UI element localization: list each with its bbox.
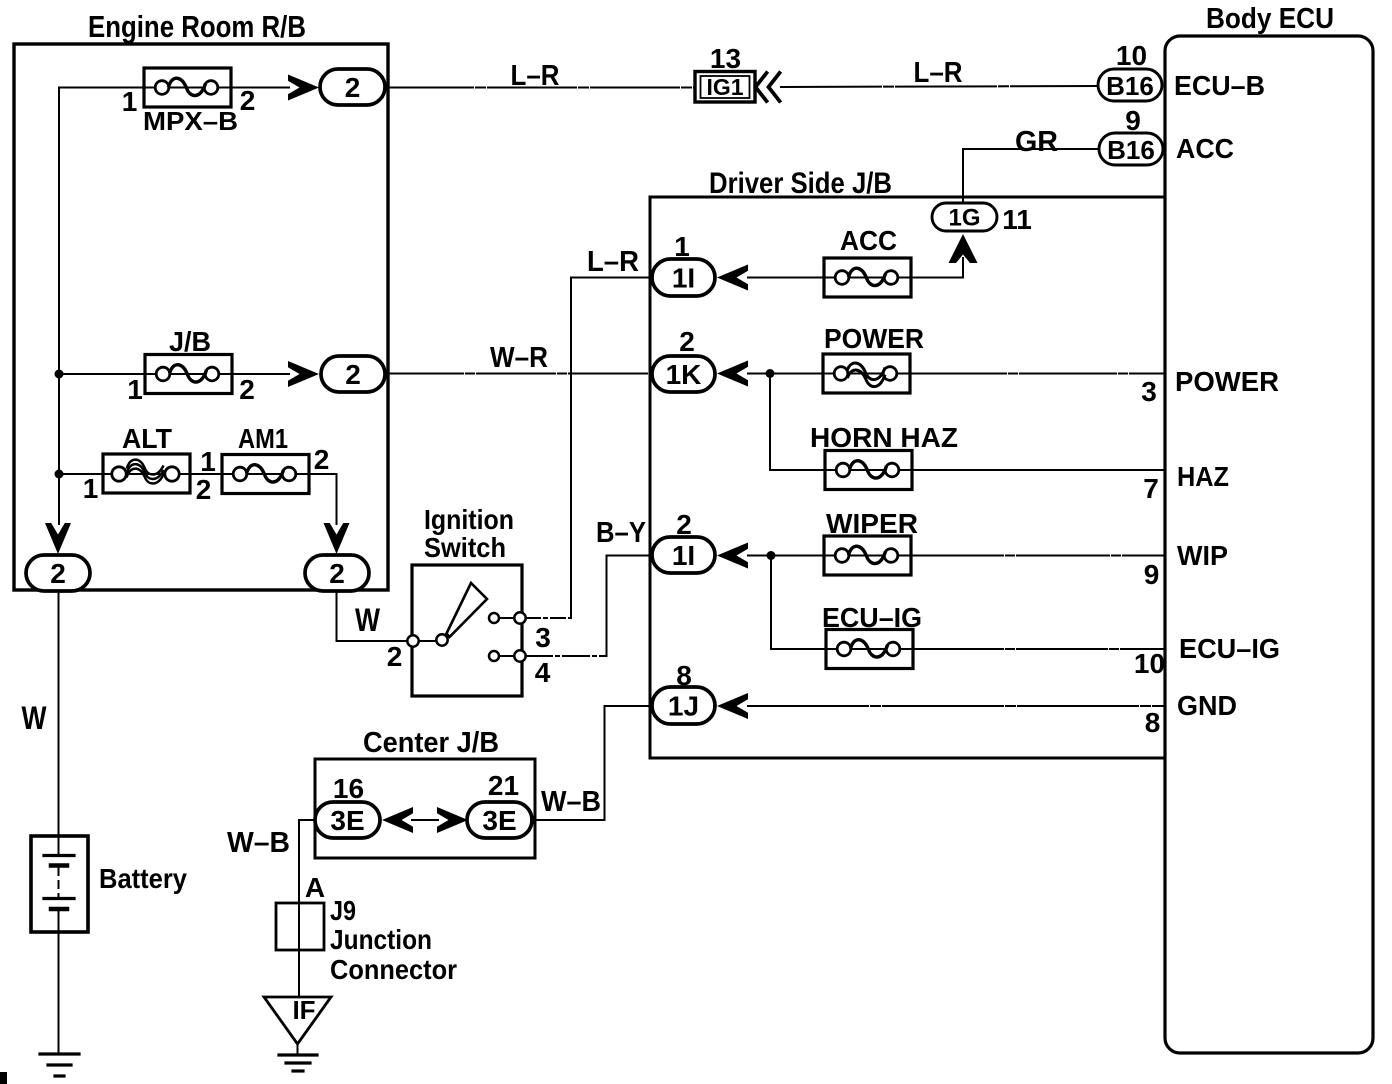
- svg-text:A: A: [305, 872, 325, 903]
- svg-text:B16: B16: [1107, 135, 1155, 165]
- 3E left pin 16: [333, 773, 364, 804]
- wire label W (ignition): [355, 602, 381, 638]
- Center J/B title: [363, 727, 499, 759]
- fuse ECU-IG: [822, 602, 922, 669]
- junction dot at J/B row: [55, 370, 64, 379]
- svg-text:1: 1: [122, 86, 138, 117]
- wire W: battery feed vertical: [58, 591, 60, 836]
- svg-text:2: 2: [329, 558, 345, 589]
- svg-text:10: 10: [1134, 648, 1165, 679]
- GND pin 8: [1145, 707, 1161, 738]
- 3E right pin 21: [488, 770, 519, 801]
- svg-text:8: 8: [1145, 707, 1161, 738]
- wire: battery to ground: [58, 932, 60, 1054]
- arrow up into 1G: [949, 234, 978, 263]
- svg-text:GR: GR: [1015, 126, 1058, 158]
- ignition switch title: [424, 504, 514, 563]
- fuse HORN HAZ: [810, 422, 958, 490]
- wire W: to ignition switch: [337, 591, 409, 641]
- svg-text:WIP: WIP: [1177, 540, 1228, 571]
- arrow left into 1K: [717, 361, 748, 387]
- arrow down into left bottom connector: [45, 523, 71, 554]
- wire: J/B row horizontal: [59, 373, 289, 375]
- connector oval 2 (bottom left): [26, 555, 90, 591]
- WIP pin 9: [1144, 559, 1160, 590]
- wire label B-Y: [596, 517, 646, 549]
- svg-text:1I: 1I: [672, 263, 695, 294]
- 1I pin 1: [674, 231, 690, 262]
- connector B16 (ACC): [1099, 133, 1163, 165]
- wire: ACC fuse to 1G: [911, 258, 963, 278]
- svg-text:1I: 1I: [672, 540, 695, 571]
- pin name POWER: [1175, 366, 1279, 397]
- svg-text:ACC: ACC: [840, 225, 897, 256]
- connector oval 2 (MPX-B row): [320, 69, 385, 105]
- wire: AM1 to right connector: [309, 474, 337, 524]
- svg-text:J9: J9: [330, 895, 356, 926]
- wire: ALT row horizontal: [59, 473, 223, 475]
- connector oval 3E (left): [315, 802, 380, 838]
- wire: HORN HAZ fuse to Body ECU: [912, 469, 1165, 471]
- AM1 pin 2: [314, 444, 330, 475]
- fuse WIPER: [824, 508, 918, 575]
- svg-text:2: 2: [314, 444, 330, 475]
- pin name ECU-IG: [1179, 633, 1280, 664]
- J9 labels: [330, 895, 457, 985]
- svg-text:Body ECU: Body ECU: [1206, 3, 1334, 35]
- 1K pin 2: [679, 326, 695, 357]
- svg-text:Battery: Battery: [99, 863, 187, 894]
- svg-text:POWER: POWER: [824, 323, 924, 354]
- 1G pin 11: [1002, 204, 1032, 235]
- svg-text:GND: GND: [1177, 690, 1237, 721]
- arrow down into right bottom connector: [324, 523, 350, 554]
- ignition switch terminal 2: [387, 635, 419, 672]
- svg-text:IG1: IG1: [706, 74, 743, 100]
- ECU-IG pin 10: [1134, 648, 1165, 679]
- wire label L-R (top right): [914, 57, 963, 89]
- Body ECU box: [1165, 36, 1373, 1053]
- svg-text:IF: IF: [292, 995, 315, 1025]
- svg-text:W–B: W–B: [227, 827, 290, 859]
- svg-text:2: 2: [345, 72, 361, 103]
- junction connector J9 box: [276, 903, 324, 950]
- svg-text:L–R: L–R: [587, 246, 639, 278]
- J/B pin 1: [127, 374, 143, 405]
- svg-text:W: W: [355, 602, 381, 638]
- wire W-R: engine room to 1K: [385, 373, 652, 375]
- pin name ACC: [1176, 133, 1234, 164]
- wire: POWER fuse to Body ECU: [910, 373, 1165, 375]
- svg-text:HORN HAZ: HORN HAZ: [810, 422, 958, 453]
- svg-text:1: 1: [127, 374, 143, 405]
- double chevron after IG1: [756, 73, 780, 101]
- ignition switch pivot and lever: [419, 583, 487, 646]
- wire: ECU-IG fuse to Body ECU: [913, 648, 1165, 650]
- fuse ACC: [824, 225, 911, 297]
- wire: 1J to Body ECU GND: [748, 705, 1165, 707]
- Body ECU title: [1206, 3, 1334, 35]
- wire W-B: left 3E to J9: [299, 820, 315, 903]
- connector IG1: [695, 72, 755, 103]
- fuse POWER: [823, 323, 924, 393]
- wire label GR: [1015, 126, 1058, 158]
- svg-text:8: 8: [676, 660, 692, 691]
- connector oval 2 (bottom right): [305, 555, 369, 591]
- svg-text:ALT: ALT: [122, 423, 172, 454]
- IG1 pin 13: [710, 43, 741, 74]
- svg-text:POWER: POWER: [1175, 366, 1279, 397]
- wire label W-R: [490, 342, 548, 374]
- connector oval 1I (WIPER row): [652, 537, 715, 573]
- svg-text:2: 2: [676, 509, 692, 540]
- Driver Side J/B block box: [650, 197, 1165, 758]
- ignition switch contact 4: [489, 650, 551, 688]
- HAZ pin 7: [1143, 473, 1159, 504]
- wire label W-B (left): [227, 827, 290, 859]
- svg-text:J/B: J/B: [169, 326, 211, 357]
- B16 pin 9: [1125, 105, 1141, 136]
- wire L-R: IG1 to ECU-B: [781, 86, 1098, 87]
- fuse AM1: [222, 423, 309, 494]
- svg-text:10: 10: [1116, 40, 1147, 71]
- svg-text:W–R: W–R: [490, 342, 548, 374]
- svg-text:ECU–IG: ECU–IG: [822, 602, 922, 633]
- wire: 1K to POWER fuse: [748, 373, 823, 375]
- fuse ALT (fusible link): [103, 423, 190, 493]
- ALT pin 1: [83, 473, 99, 504]
- svg-text:4: 4: [535, 657, 551, 688]
- svg-text:B16: B16: [1106, 71, 1154, 101]
- arrow left into 1I (ACC row): [717, 265, 748, 291]
- connector oval 2 (J/B row): [321, 356, 385, 392]
- junction dot at ALT row: [55, 470, 64, 479]
- wire label L-R (top left): [511, 60, 560, 92]
- wire: WIPER junction down to ECU-IG: [771, 556, 826, 650]
- ignition switch box: [412, 565, 522, 696]
- svg-text:1K: 1K: [666, 359, 702, 390]
- connector B16 (ECU-B): [1098, 69, 1162, 101]
- MPX-B pin 1: [122, 86, 138, 117]
- fuse J/B: [145, 326, 232, 394]
- svg-text:Engine Room R/B: Engine Room R/B: [88, 9, 306, 44]
- svg-text:3: 3: [535, 622, 551, 653]
- svg-text:1: 1: [83, 473, 99, 504]
- svg-text:Ignition: Ignition: [424, 504, 514, 535]
- svg-text:ACC: ACC: [1176, 133, 1234, 164]
- ignition switch contact 3: [489, 612, 551, 653]
- svg-text:7: 7: [1143, 473, 1159, 504]
- svg-text:1G: 1G: [948, 205, 980, 232]
- battery: [31, 836, 187, 932]
- arrow into connector 2 (MPX-B row): [288, 75, 319, 101]
- svg-text:11: 11: [1002, 204, 1032, 235]
- svg-text:Connector: Connector: [330, 954, 457, 985]
- arrow left (center J/B): [382, 807, 413, 833]
- svg-text:AM1: AM1: [238, 423, 288, 454]
- wire: ignition terminal 3 to 1I (L-R): [526, 278, 652, 619]
- page corner artifact: [0, 1072, 7, 1084]
- wire label W-B (right): [541, 786, 601, 818]
- svg-text:3: 3: [1141, 376, 1157, 407]
- pin name GND: [1177, 690, 1237, 721]
- POWER pin 3: [1141, 376, 1157, 407]
- wire: MPX-B row horizontal: [59, 87, 289, 89]
- svg-text:W: W: [22, 700, 48, 736]
- J/B pin 2: [239, 374, 255, 405]
- connector oval 1I (ACC row): [652, 259, 715, 296]
- fuse MPX-B: [143, 68, 238, 136]
- svg-text:2: 2: [387, 641, 403, 672]
- svg-text:WIPER: WIPER: [826, 508, 918, 539]
- wire: WIPER fuse to Body ECU: [911, 555, 1165, 557]
- svg-text:HAZ: HAZ: [1177, 461, 1229, 492]
- svg-text:16: 16: [333, 773, 364, 804]
- pin name WIP: [1177, 540, 1228, 571]
- ALT pin 2: [196, 474, 212, 505]
- svg-text:9: 9: [1125, 105, 1141, 136]
- arrow left into 1J: [717, 693, 748, 719]
- pin name HAZ: [1177, 461, 1229, 492]
- Center J/B block box: [315, 759, 535, 858]
- svg-text:Driver Side J/B: Driver Side J/B: [709, 167, 892, 200]
- wire: IF to ground: [297, 1044, 299, 1055]
- ground (IF): [279, 1055, 317, 1071]
- svg-text:W–B: W–B: [541, 786, 601, 818]
- wire between 3E arrows: [412, 819, 438, 821]
- ground (battery): [40, 1054, 79, 1076]
- svg-text:Switch: Switch: [424, 532, 506, 563]
- Driver Side J/B title: [709, 167, 892, 200]
- node A label: [305, 872, 325, 903]
- B16 pin 10: [1116, 40, 1147, 71]
- svg-text:3E: 3E: [482, 805, 516, 836]
- arrow into connector 2 (J/B row): [288, 361, 319, 387]
- Engine Room R/B title: [88, 9, 306, 44]
- svg-text:2: 2: [345, 359, 361, 390]
- Engine Room R/B block box: [14, 44, 388, 590]
- svg-text:2: 2: [50, 558, 66, 589]
- MPX-B pin 2: [240, 85, 256, 116]
- wire: POWER junction down to HORN HAZ: [770, 374, 825, 471]
- svg-text:Center J/B: Center J/B: [363, 727, 499, 759]
- svg-text:L–R: L–R: [914, 57, 963, 89]
- junction dot WIPER row: [767, 551, 776, 560]
- connector oval 1G: [932, 203, 997, 232]
- svg-text:1J: 1J: [668, 691, 699, 722]
- 1J pin 8: [676, 660, 692, 691]
- svg-text:MPX–B: MPX–B: [143, 106, 238, 136]
- wire: 1I to ACC fuse: [748, 277, 824, 279]
- svg-text:2: 2: [679, 326, 695, 357]
- svg-text:L–R: L–R: [511, 60, 560, 92]
- wire: engine room left bus vertical: [58, 88, 60, 525]
- wire W-B: right 3E to 1J: [532, 706, 652, 820]
- svg-text:2: 2: [239, 374, 255, 405]
- svg-text:3E: 3E: [330, 805, 364, 836]
- connector oval 1J (GND row): [652, 687, 715, 724]
- svg-text:Junction: Junction: [330, 924, 432, 955]
- connector oval 1K (POWER row): [652, 356, 715, 392]
- svg-text:ECU–B: ECU–B: [1174, 70, 1265, 101]
- wire label L-R (ignition): [587, 246, 639, 278]
- svg-text:B–Y: B–Y: [596, 517, 646, 549]
- junction dot POWER row: [766, 369, 775, 378]
- wire: ignition terminal 4 to 1I (B-Y): [526, 556, 652, 657]
- wire GR: ACC B16 to 1G: [963, 149, 1099, 203]
- svg-text:1: 1: [674, 231, 690, 262]
- wire: 1I to WIPER fuse: [748, 555, 824, 557]
- wire L-R: engine room to IG1: [385, 87, 695, 89]
- pin name ECU-B: [1174, 70, 1265, 101]
- arrow right (center J/B): [437, 807, 468, 833]
- arrow left into 1I (WIPER row): [717, 543, 748, 569]
- svg-text:ECU–IG: ECU–IG: [1179, 633, 1280, 664]
- 1I WIPER pin 2: [676, 509, 692, 540]
- svg-text:21: 21: [488, 770, 519, 801]
- svg-text:9: 9: [1144, 559, 1160, 590]
- connector oval 3E (right): [467, 802, 532, 838]
- AM1 pin 1: [200, 446, 216, 477]
- ground connector IF triangle: [264, 995, 331, 1044]
- svg-text:2: 2: [240, 85, 256, 116]
- wire: J9 to IF ground: [298, 950, 300, 997]
- wire label W (left): [22, 700, 48, 736]
- svg-text:1: 1: [200, 446, 216, 477]
- svg-text:13: 13: [710, 43, 741, 74]
- svg-text:2: 2: [196, 474, 212, 505]
